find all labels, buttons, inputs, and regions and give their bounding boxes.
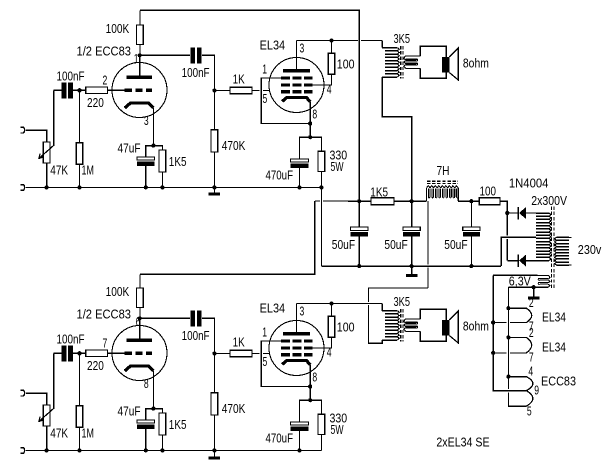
EL34 second heater filament (526, 337, 531, 353)
svg-text:100: 100 (337, 321, 355, 335)
resistor 1K5 cathode B (153, 409, 162, 413)
node second filter (410, 199, 414, 203)
resistor 1K5 PSU (371, 198, 394, 205)
svg-text:1: 1 (134, 52, 139, 66)
choke 7H winding (427, 186, 459, 202)
wire ground rail A (26, 186, 322, 188)
svg-text:6,3V: 6,3V (509, 275, 532, 289)
capacitor 470uF cathode A (300, 137, 311, 159)
mains transformer primary 230v (557, 237, 569, 265)
EL34 grid g2 row B (281, 346, 313, 349)
svg-text:47K: 47K (50, 427, 68, 441)
svg-text:3: 3 (144, 114, 149, 128)
triode anode plate B (126, 339, 152, 342)
input jack JB sleeve (21, 448, 25, 454)
heater winding 6.3V (538, 274, 549, 276)
ECC83 heater filament upper (526, 377, 533, 391)
ECC83 heater filament lower (526, 391, 533, 407)
EL34 grid g1 row B (281, 353, 313, 356)
resistor 100 screen A (328, 53, 335, 74)
svg-text:7: 7 (529, 350, 534, 364)
output transformer secondary B (406, 318, 421, 320)
svg-text:50uF: 50uF (444, 238, 468, 252)
PSU B+ rail (315, 200, 320, 202)
svg-text:5W: 5W (331, 160, 344, 174)
wire cap to grid stopper B (72, 352, 86, 354)
node EL34 grid A (212, 88, 216, 92)
resistor 100 PSU (479, 198, 500, 205)
svg-text:50uF: 50uF (384, 238, 408, 252)
node rectifier output (505, 211, 509, 215)
svg-text:100K: 100K (106, 285, 130, 299)
EL34 g3-cathode bracket B (261, 341, 310, 387)
svg-text:1K: 1K (233, 73, 246, 87)
svg-text:9: 9 (534, 384, 539, 398)
svg-text:5: 5 (527, 405, 532, 419)
triode ECC83 A envelope (112, 63, 167, 118)
capacitor 50uF first (358, 201, 360, 227)
wire jack tip to volume pot A (26, 130, 47, 142)
wire 6.3V top lead to heater bus (493, 274, 538, 276)
node cathode network A (151, 144, 155, 148)
triode anode plate A (126, 76, 152, 79)
capacitor 100nF coupling B (140, 317, 191, 319)
svg-text:8: 8 (312, 370, 317, 384)
capacitor 50uF second (411, 201, 413, 227)
ground symbol B (213, 450, 215, 457)
triode cathode A (125, 103, 154, 108)
svg-text:470K: 470K (222, 139, 246, 153)
EL34 grid g1 row A (281, 90, 313, 93)
svg-text:100: 100 (480, 184, 497, 198)
svg-text:1K5: 1K5 (370, 185, 388, 199)
svg-text:EL34: EL34 (542, 340, 566, 354)
wire cap to grid stopper A (72, 89, 86, 91)
node grid network A (77, 88, 81, 92)
svg-text:1K: 1K (233, 336, 246, 350)
EL34 grid g3 row A (281, 76, 313, 79)
resistor 330 5W cathode A (310, 137, 321, 151)
speaker A magnet (442, 57, 450, 73)
heater ground symbol (533, 287, 535, 297)
mains transformer HV secondary 2x300V (536, 213, 549, 261)
svg-text:470uF: 470uF (266, 169, 294, 183)
output transformer primary A (382, 48, 397, 77)
PSU ground symbol (411, 266, 413, 275)
svg-text:3: 3 (300, 304, 305, 318)
capacitor 50uF third (470, 201, 472, 227)
svg-text:1N4004: 1N4004 (509, 177, 549, 191)
choke 7H core (427, 180, 458, 182)
capacitor 470uF cathode B (300, 400, 311, 422)
PSU ground rail (321, 265, 501, 267)
node cathode network B (151, 407, 155, 411)
svg-text:470K: 470K (222, 402, 246, 416)
EL34 cathode lead B (309, 365, 311, 400)
svg-text:1/2 ECC83: 1/2 ECC83 (77, 45, 132, 59)
svg-text:220: 220 (87, 96, 104, 110)
svg-text:7H: 7H (437, 164, 450, 178)
resistor 1M B (79, 353, 81, 405)
EL34 second heater pin 7 lead with crossing break (510, 352, 526, 354)
svg-text:100: 100 (337, 58, 355, 72)
pentode EL34 A envelope (269, 58, 324, 113)
svg-text:8: 8 (144, 377, 149, 391)
wire ground rail B (26, 449, 322, 451)
EL34 cathode A (282, 97, 310, 102)
wire rail A into PSU ground (319, 185, 323, 189)
node first filter (357, 199, 361, 203)
capacitor 100nF input B (54, 352, 63, 354)
svg-text:ECC83: ECC83 (541, 375, 576, 389)
EL34 second heater pin 2 lead (508, 336, 526, 338)
pot 47K wiper arrow A (39, 90, 54, 158)
speaker A frame (420, 46, 446, 78)
svg-text:1M: 1M (82, 164, 94, 178)
svg-text:2x300V: 2x300V (531, 194, 567, 208)
node pot bottom on rail B (45, 448, 49, 452)
svg-text:4: 4 (528, 365, 533, 379)
EL34 first heater pin 2 lead (508, 307, 526, 309)
svg-text:5: 5 (263, 92, 268, 106)
output transformer primary B (382, 311, 397, 340)
svg-text:2xEL34 SE: 2xEL34 SE (436, 435, 489, 450)
svg-text:3: 3 (300, 41, 305, 55)
svg-text:220: 220 (87, 359, 104, 373)
speaker B frame (420, 309, 446, 341)
resistor 1K5 cathode A (153, 146, 162, 150)
resistor 470K grid leak B (213, 354, 215, 393)
svg-text:100nF: 100nF (57, 332, 85, 346)
EL34 g2 lead to 100R A (312, 74, 331, 85)
svg-text:EL34: EL34 (260, 302, 286, 316)
node EL34 cathode network A (308, 135, 312, 139)
wire 1K to EL34 g1 with crossing break B (252, 353, 260, 355)
wire coupling cap to EL34 grid node B (202, 318, 215, 353)
EL34 first heater filament (526, 308, 531, 322)
wire PSU to output transformer B with crossing breaks (427, 201, 429, 265)
EL34 grid g2 row A (281, 83, 313, 86)
node third filter (469, 199, 473, 203)
wire 1K to EL34 g1 with crossing break A (252, 90, 260, 92)
ground symbol A (213, 187, 215, 193)
input jack JA sleeve (21, 185, 25, 191)
input jack JA tip (21, 127, 25, 133)
output transformer secondary A (406, 55, 421, 57)
output transformer core B (400, 309, 402, 342)
capacitor 47uF cathode bypass A (146, 146, 154, 157)
node grid network B (77, 351, 81, 355)
svg-text:EL34: EL34 (260, 39, 286, 53)
svg-text:100nF: 100nF (182, 66, 210, 80)
svg-text:470uF: 470uF (266, 432, 294, 446)
node 6.3V ground tap (532, 285, 536, 289)
resistor 1M A (79, 90, 81, 142)
capacitor 100nF input A (54, 89, 63, 91)
svg-text:2: 2 (103, 73, 108, 87)
speaker B cone (449, 311, 458, 343)
wire B+ top rail to preamp A (140, 10, 359, 201)
triode ECC83 B envelope (112, 326, 167, 381)
speaker B magnet (442, 320, 450, 336)
EL34 g3-cathode bracket A (261, 78, 310, 124)
triode cathode B (125, 366, 154, 371)
capacitor 100nF coupling A (140, 54, 191, 56)
EL34 grid g3 row B (281, 339, 313, 342)
svg-text:1: 1 (262, 62, 267, 76)
svg-text:1K5: 1K5 (169, 155, 187, 169)
rectifier bus with crossing break at centre tap (506, 213, 508, 235)
heater bus left from 6.3V (493, 275, 526, 390)
EL34 cathode lead A (309, 102, 311, 137)
node EL34 grid B (212, 351, 216, 355)
potentiometer 47K B (43, 405, 50, 426)
node EL34 anode wire B (329, 301, 333, 305)
svg-text:8ohm: 8ohm (463, 320, 489, 334)
node EL34 anode wire A (329, 38, 333, 42)
svg-text:5: 5 (263, 355, 268, 369)
svg-text:1K5: 1K5 (169, 418, 187, 432)
svg-text:100nF: 100nF (57, 69, 85, 83)
svg-text:8ohm: 8ohm (463, 57, 489, 71)
wire 220 to grid B (107, 352, 124, 354)
EL34 anode plate A (283, 69, 310, 72)
svg-text:EL34: EL34 (542, 310, 566, 324)
svg-text:100nF: 100nF (182, 329, 210, 343)
svg-text:47uF: 47uF (118, 141, 141, 155)
resistor 220 grid stopper B (86, 350, 108, 357)
svg-text:100K: 100K (106, 22, 130, 36)
svg-text:1M: 1M (82, 427, 94, 441)
wire 220 to grid A (107, 89, 124, 91)
wire EL34 B anode to output transformer with crossing break (297, 303, 383, 305)
triode grid dashes A (125, 89, 153, 92)
svg-text:5W: 5W (331, 423, 344, 437)
pentode EL34 B envelope (269, 321, 324, 376)
triode cathode lead B (152, 371, 154, 409)
output transformer core A (400, 46, 402, 79)
svg-text:2: 2 (529, 326, 534, 340)
svg-text:47uF: 47uF (118, 404, 141, 418)
node pot bottom on rail A (45, 185, 49, 189)
pot 47K wiper arrow B (39, 353, 54, 421)
triode cathode lead A (152, 108, 154, 146)
resistor 470K grid leak A (213, 91, 215, 130)
svg-text:7: 7 (103, 336, 108, 350)
svg-text:50uF: 50uF (332, 238, 356, 252)
wire B+ riser to preamp B (140, 201, 315, 274)
svg-text:3K5: 3K5 (394, 295, 411, 309)
wire jack tip to volume pot B (26, 393, 47, 405)
wire coupling cap to EL34 grid node A (202, 55, 215, 90)
node triode anode B (138, 316, 142, 320)
svg-text:8: 8 (312, 107, 317, 121)
svg-text:1: 1 (262, 325, 267, 339)
EL34 cathode B (282, 360, 310, 365)
ECC83 heater pin 4 lead (508, 376, 526, 378)
EL34 anode plate B (283, 332, 310, 335)
resistor 100K anode load A (139, 45, 141, 56)
resistor 1K grid stopper EL34 B (214, 353, 230, 355)
svg-text:1/2 ECC83: 1/2 ECC83 (77, 308, 132, 322)
svg-text:47K: 47K (50, 164, 68, 178)
speaker A cone (449, 48, 458, 80)
wire 100 to rectifier node (500, 201, 507, 213)
diode 1N4004 upper (507, 212, 518, 214)
capacitor 47uF cathode bypass B (146, 409, 154, 420)
mains transformer centre tap wire (501, 237, 536, 266)
potentiometer 47K A (43, 142, 50, 163)
wire EL34 A anode to output transformer with crossing break (297, 40, 358, 42)
resistor 100K anode load B (139, 308, 141, 319)
node triode anode A (138, 53, 142, 57)
wire 6.3V bottom lead (508, 286, 537, 288)
heater bus middle from 6.3V with crossing break (507, 287, 509, 389)
input jack JB tip (21, 390, 25, 396)
diode 1N4004 lower (507, 260, 518, 262)
svg-text:230v: 230v (578, 243, 602, 257)
EL34 first heater pin 7 lead with crossing break (510, 322, 526, 324)
resistor 1K grid stopper EL34 A (214, 90, 230, 92)
svg-text:2: 2 (529, 296, 534, 310)
resistor 220 grid stopper A (86, 87, 108, 94)
EL34 g2 lead to 100R B (312, 337, 331, 348)
svg-text:3K5: 3K5 (394, 32, 411, 46)
mains transformer core (551, 207, 553, 289)
node EL34 cathode network B (308, 398, 312, 402)
resistor 330 5W cathode B (310, 400, 321, 414)
resistor 100 screen B (328, 316, 335, 337)
triode grid dashes B (125, 352, 153, 355)
wire output transformer A to B+ node (382, 77, 411, 201)
